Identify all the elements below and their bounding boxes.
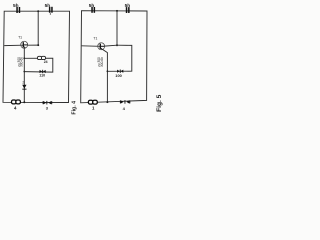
wire: outer border loop Fig4 <box>3 11 70 102</box>
transistor T1 <box>21 41 28 48</box>
svg-text:2: 2 <box>22 80 24 84</box>
diode pair 3 (back-to-back on bottom rail) <box>43 101 53 105</box>
svg-text:5h: 5h <box>89 3 95 9</box>
node branch junction <box>107 70 109 72</box>
svg-text:100: 100 <box>115 73 122 78</box>
svg-text:5h: 5h <box>125 3 131 9</box>
capacitor C4 (top rail right) <box>126 7 130 13</box>
battery 4 (double-cell pill on bottom rail) <box>12 100 21 104</box>
wire: vertical from top rail to collector node <box>116 11 118 45</box>
svg-text:300-6b: 300-6b <box>100 57 104 67</box>
diode D2 (in emitter line, pointing down) <box>22 85 26 90</box>
svg-text:300-6b: 300-6b <box>20 57 24 67</box>
svg-text:T1: T1 <box>18 36 22 40</box>
node on top rail <box>116 10 118 12</box>
node branch A <box>23 57 25 59</box>
node emitter/bottom-rail junction <box>23 101 25 103</box>
wire: loop from collector node right and down to branch <box>107 45 131 71</box>
diode pair 110 (back-to-back on bottom branch) <box>40 70 46 73</box>
svg-text:5h: 5h <box>45 3 51 9</box>
wire: outer border loop Fig5 <box>81 11 147 103</box>
node collector junction <box>37 44 39 46</box>
svg-text:24: 24 <box>44 60 48 64</box>
svg-text:Fig. 4: Fig. 4 <box>72 101 78 115</box>
svg-text:5h: 5h <box>13 3 19 9</box>
resistor 24 (double-cell pill on top branch) <box>38 56 46 59</box>
node on top rail <box>37 10 39 12</box>
svg-text:Fig. 5: Fig. 5 <box>156 94 163 112</box>
node emitter/bottom-rail junction <box>106 101 108 103</box>
wire: vertical from top rail to collector node <box>37 11 39 45</box>
wire: base lead from left border to T1 <box>82 45 100 48</box>
battery 1 (double-cell pill on bottom rail) <box>88 100 97 104</box>
wire: base lead from left border to T1 <box>4 44 23 46</box>
svg-text:110: 110 <box>39 74 45 78</box>
wire: collector lead T1 to junction <box>27 44 38 46</box>
capacitor C2 (top rail right) <box>49 7 53 15</box>
wire: collector lead T1 to junction <box>104 44 117 47</box>
wire: emitter jog and line down to bottom rail <box>102 49 107 102</box>
transistor T1 <box>98 43 105 50</box>
wire: parallel loop (top branch, right side, bottom branch) <box>24 58 53 72</box>
diode pair 100 (back-to-back on branch) <box>117 70 123 73</box>
capacitor C1 (top rail left) <box>16 7 20 13</box>
wire: emitter line down to bottom rail <box>23 48 25 103</box>
node branch B <box>23 71 25 73</box>
diode pair 4 (back-to-back on bottom rail) <box>120 100 130 104</box>
svg-text:T1: T1 <box>93 36 97 40</box>
node collector junction <box>116 44 118 46</box>
capacitor C3 (top rail left) <box>91 7 95 13</box>
